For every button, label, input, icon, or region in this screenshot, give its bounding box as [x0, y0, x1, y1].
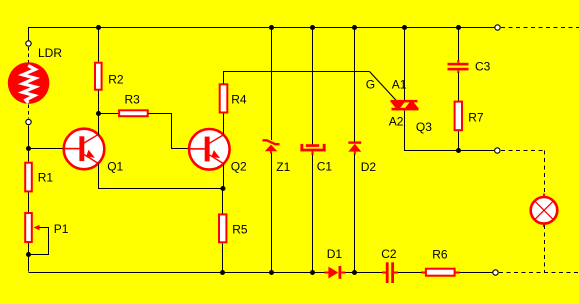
svg-text:D2: D2	[361, 160, 377, 174]
svg-text:Q3: Q3	[416, 120, 432, 134]
zener diode Z1	[263, 140, 280, 153]
label Q3	[416, 120, 432, 134]
label R6	[432, 248, 448, 262]
label C2	[381, 247, 397, 261]
capacitor C2	[382, 262, 398, 283]
node R2 R3 junction	[96, 111, 101, 116]
svg-text:LDR: LDR	[38, 46, 62, 60]
wire dashed lamp to bottom rail	[544, 225, 546, 273]
wire dashed mid right to lamp	[501, 151, 545, 196]
label A2	[389, 114, 404, 128]
svg-text:A2: A2	[389, 114, 404, 128]
label R5	[232, 222, 248, 236]
node top rail triac	[402, 25, 407, 30]
terminal bottom right	[493, 270, 498, 275]
node P1 wiper junction	[26, 252, 31, 257]
wire R7 to junction	[458, 131, 460, 150]
svg-text:R7: R7	[468, 110, 484, 124]
wire triac A2 down and right	[405, 110, 495, 150]
wire rail to triac A1	[404, 28, 406, 101]
wire rail to C3	[458, 28, 460, 61]
resistor R6	[421, 269, 460, 276]
wire P1 to bottom rail	[28, 243, 30, 272]
label P1	[54, 222, 69, 236]
node emitter junction	[221, 186, 226, 191]
capacitor C3	[448, 60, 469, 73]
wire D2 to bottom rail	[354, 154, 356, 273]
svg-text:C3: C3	[475, 60, 491, 74]
node top rail C1	[310, 25, 315, 30]
wire dashed bottom right	[499, 272, 579, 274]
svg-text:C2: C2	[381, 247, 397, 261]
wire rail to Z1	[271, 28, 273, 141]
node base junction	[26, 146, 31, 151]
node bottom rail R5	[220, 270, 225, 275]
wire R2 to Q1 collector	[98, 91, 100, 135]
wire Q1 base	[29, 148, 64, 150]
svg-text:R6: R6	[432, 248, 448, 262]
svg-text:A1: A1	[392, 78, 407, 92]
node bottom rail Z1	[269, 270, 274, 275]
svg-text:R4: R4	[231, 93, 247, 107]
label LDR	[38, 46, 62, 60]
label D2	[361, 160, 377, 174]
node top rail D2	[352, 25, 357, 30]
wire top rail	[29, 27, 495, 29]
wire dashed LDR bottom lead	[28, 105, 30, 119]
label D1	[327, 247, 343, 261]
wire C3 to R7	[458, 73, 460, 101]
wire left column to R1	[28, 125, 30, 161]
node top rail Z1	[269, 25, 274, 30]
label C1	[317, 160, 333, 174]
svg-text:R1: R1	[38, 171, 54, 185]
label Q1	[107, 160, 123, 174]
wire rail to D2	[354, 28, 356, 142]
node bottom rail C1	[310, 270, 315, 275]
svg-text:P1: P1	[54, 222, 69, 236]
wire R5 to bottom rail	[222, 243, 224, 272]
diode D2	[348, 141, 361, 154]
diode D1	[325, 266, 346, 279]
wire Q2 emitter	[223, 164, 225, 189]
wire C1 to bottom rail	[312, 155, 314, 273]
svg-text:Q1: Q1	[107, 160, 123, 174]
label R3	[125, 93, 141, 107]
label Z1	[276, 160, 290, 174]
wire bottom rail	[29, 272, 493, 274]
wire rail to C1	[312, 28, 314, 145]
terminal top right	[495, 25, 500, 30]
triac Q3	[391, 100, 419, 111]
node top rail C3	[456, 25, 461, 30]
wire dashed top right	[501, 27, 579, 29]
label Q2	[231, 160, 247, 174]
wire Q1 emitter to R5 junction	[99, 163, 224, 188]
LDR photoresistor	[8, 62, 50, 104]
wire R1 to P1	[28, 192, 30, 212]
node R7 bottom junction	[456, 148, 461, 153]
svg-text:Z1: Z1	[276, 160, 290, 174]
svg-text:D1: D1	[327, 247, 343, 261]
label R4	[231, 93, 247, 107]
wire Z1 to bottom rail	[271, 153, 273, 273]
terminal top-left	[26, 41, 31, 46]
capacitor C1	[300, 144, 325, 155]
svg-text:R5: R5	[232, 222, 248, 236]
label R7	[468, 110, 484, 124]
wire dashed LDR top lead	[28, 47, 30, 63]
label R1	[38, 171, 54, 185]
wire R3 to Q2 base	[149, 114, 190, 149]
svg-text:Q2: Q2	[231, 160, 247, 174]
wire junction to R5	[222, 189, 224, 214]
wire junction to R3	[99, 113, 119, 115]
svg-text:G: G	[366, 78, 375, 92]
resistor R7	[455, 102, 462, 131]
node top rail R2	[96, 25, 101, 30]
resistor R2	[95, 63, 102, 90]
lamp	[531, 194, 558, 228]
label R2	[108, 72, 124, 86]
label A1	[392, 78, 407, 92]
terminal below LDR	[26, 119, 31, 124]
label G	[366, 78, 375, 92]
wire top-left drop	[28, 27, 30, 40]
svg-text:C1: C1	[317, 160, 333, 174]
resistor R4	[220, 84, 228, 112]
transistor Q2	[189, 129, 230, 170]
potentiometer P1	[25, 213, 48, 255]
transistor Q1	[64, 129, 105, 170]
label C3	[475, 60, 491, 74]
terminal mid right	[495, 148, 500, 153]
wire R4 to triac gate	[224, 72, 397, 101]
resistor R3	[119, 110, 148, 116]
resistor R5	[219, 214, 226, 242]
node bottom rail D2	[352, 270, 357, 275]
svg-text:R3: R3	[125, 93, 141, 107]
wire rail to R2	[98, 28, 100, 62]
resistor R1	[25, 163, 32, 192]
wire Q2 collector to R4	[223, 114, 225, 135]
svg-text:R2: R2	[108, 72, 124, 86]
